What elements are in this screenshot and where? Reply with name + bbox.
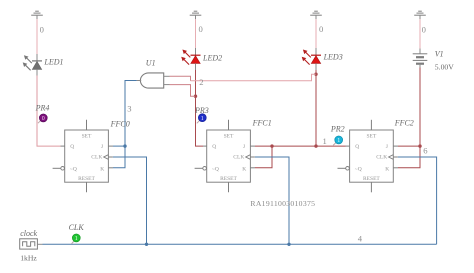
svg-text:2: 2	[199, 77, 203, 87]
svg-text:FFC1: FFC1	[252, 119, 272, 128]
clock source	[20, 239, 43, 249]
wire (U1 input A to net 2)	[170, 76, 191, 81]
svg-text:LED3: LED3	[323, 53, 343, 62]
svg-text:~Q: ~Q	[212, 167, 219, 173]
wire (U1 input B to LED2 wire)	[170, 85, 196, 97]
probe CLK	[72, 234, 81, 244]
flip-flop FFC0	[53, 120, 113, 193]
svg-text:K: K	[100, 167, 104, 173]
wire net 1 (FFC1 J/K tie, red)	[255, 146, 272, 168]
svg-text:0: 0	[319, 24, 323, 34]
svg-text:Q: Q	[355, 144, 359, 150]
svg-text:0: 0	[422, 24, 426, 34]
svg-text:0: 0	[40, 25, 44, 35]
wire net 3 (U1 out to FFC0 J/K, blue)	[113, 81, 137, 168]
LED LED3 (lit, red)	[302, 50, 321, 71]
wire net 6 (V1 to FFC2 J/K)	[398, 68, 420, 168]
ground GND2 (above LED2)	[190, 11, 202, 19]
svg-text:RESET: RESET	[363, 176, 380, 182]
svg-text:6: 6	[423, 145, 428, 155]
svg-text:SET: SET	[82, 133, 92, 139]
wire (FFC0 CLK to bus, blue)	[113, 157, 147, 244]
svg-text:0: 0	[42, 116, 45, 122]
junction (FFC1 CLK on bus)	[287, 243, 290, 246]
wire net 0 (GND3 to LED3)	[315, 19, 317, 55]
svg-text:FFC2: FFC2	[394, 118, 414, 127]
svg-text:SET: SET	[367, 133, 377, 139]
probe PR4	[38, 114, 47, 123]
LED LED2 (lit, red)	[181, 50, 200, 71]
junction (net 2 joins LED3 wire)	[314, 73, 317, 76]
flip-flop FFC1	[195, 120, 255, 193]
battery V1	[413, 54, 428, 68]
svg-text:CLK: CLK	[376, 155, 387, 161]
svg-text:0: 0	[199, 24, 203, 34]
wire net 0 (GND1 to LED1)	[36, 19, 38, 60]
svg-text:K: K	[242, 167, 246, 173]
wire (LED3 down to net 1, dark red)	[315, 70, 317, 146]
wire (LED2 down to FFC1 Q, dark red)	[196, 70, 204, 146]
svg-text:K: K	[385, 167, 389, 173]
wire net 1 (FFC1 J to FFC2 Q, red)	[272, 145, 346, 147]
svg-text:U1: U1	[146, 59, 156, 68]
svg-text:PR3: PR3	[194, 106, 209, 115]
svg-text:LED2: LED2	[202, 53, 222, 62]
svg-text:1kHz: 1kHz	[20, 253, 37, 262]
svg-text:~Q: ~Q	[70, 167, 77, 173]
svg-text:1: 1	[337, 138, 340, 144]
junction (FFC0 CLK on bus)	[145, 243, 148, 246]
svg-text:CLK: CLK	[233, 155, 244, 161]
junction (AND input B on LED2 net)	[194, 95, 197, 98]
ground GND1 (above LED1)	[31, 11, 43, 19]
wire (FFC1 CLK to bus, blue)	[255, 157, 289, 244]
wire net 2 (to LED3 wire, pink)	[191, 74, 316, 81]
svg-text:LED1: LED1	[43, 58, 63, 67]
svg-text:CLK: CLK	[69, 223, 85, 232]
svg-text:FFC0: FFC0	[110, 119, 130, 128]
svg-text:PR2: PR2	[330, 124, 345, 133]
svg-text:RESET: RESET	[78, 176, 95, 182]
junction (LED3 wire joins net 1)	[314, 144, 317, 147]
LED LED1 (off, gray)	[23, 55, 42, 75]
flip-flop FFC2	[338, 120, 399, 193]
wire (FFC2 J to net 6)	[398, 145, 420, 147]
svg-text:3: 3	[127, 104, 131, 114]
svg-text:V1: V1	[435, 50, 444, 59]
svg-text:PR4: PR4	[35, 104, 50, 113]
junction (net 1 at FFC1 J)	[270, 144, 273, 147]
svg-text:Q: Q	[212, 144, 216, 150]
svg-text:clock: clock	[20, 229, 37, 238]
probe PR2	[333, 136, 342, 145]
ground GND4 (above V1)	[414, 11, 426, 19]
svg-text:5.00V: 5.00V	[435, 63, 454, 72]
AND gate U1 (mirrored, inputs right)	[137, 73, 170, 88]
ground GND3 (above LED3)	[310, 11, 322, 19]
wire net 4 (FFC2 CLK to bus, blue)	[398, 157, 437, 244]
svg-text:SET: SET	[224, 133, 234, 139]
svg-text:RA1911003010375: RA1911003010375	[250, 199, 315, 208]
svg-text:~Q: ~Q	[355, 167, 362, 173]
wire net 4 (clock bus, blue)	[43, 243, 437, 245]
junction (net 3 at FFC0 J)	[123, 144, 126, 147]
wire (LED1 to FFC0 Q)	[37, 76, 61, 147]
svg-text:4: 4	[358, 233, 363, 243]
svg-text:RESET: RESET	[220, 176, 237, 182]
probe PR3	[197, 114, 206, 124]
junction (net 6 at FFC2 J)	[418, 144, 421, 147]
wire net 0 (GND4 to V1)	[419, 19, 421, 54]
svg-text:1: 1	[201, 116, 204, 122]
svg-text:CLK: CLK	[91, 155, 102, 161]
svg-text:1: 1	[323, 136, 327, 146]
wire net 0 (GND2 to LED2)	[195, 19, 197, 55]
svg-text:1: 1	[75, 236, 78, 242]
svg-text:Q: Q	[70, 144, 74, 150]
